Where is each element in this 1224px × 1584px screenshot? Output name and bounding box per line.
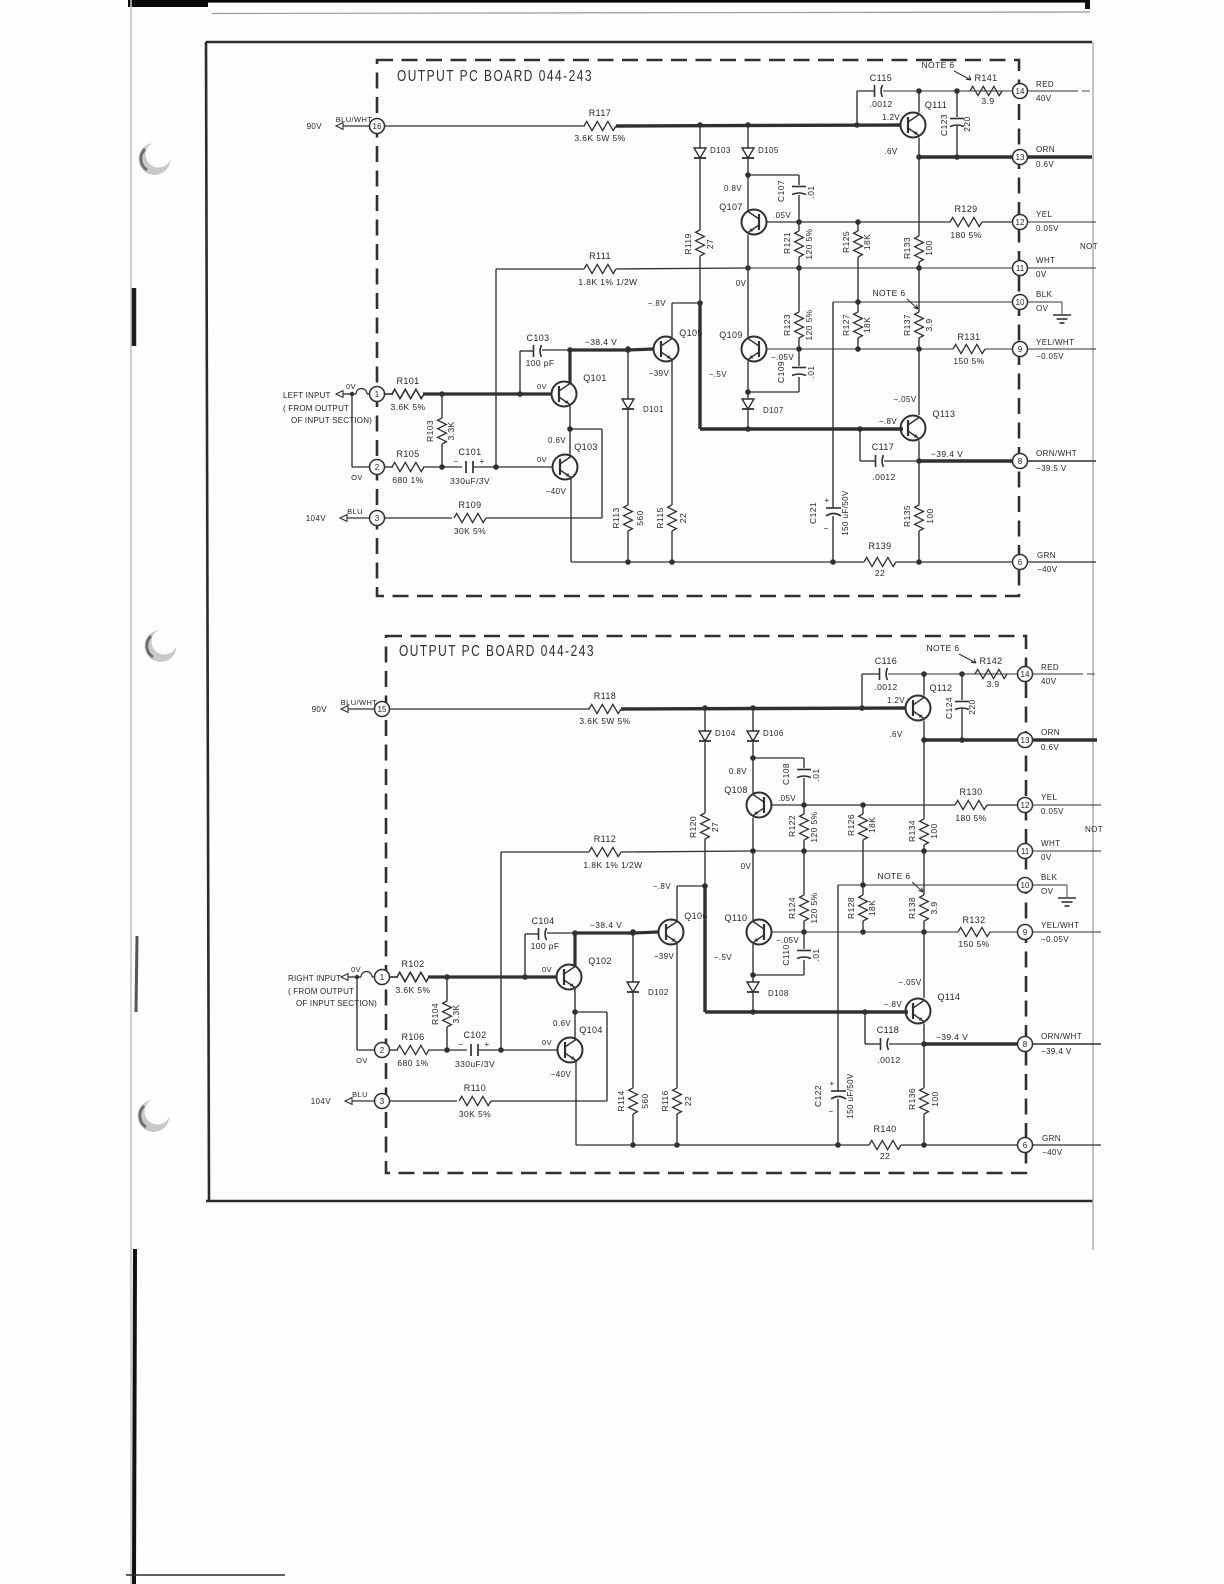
svg-text:NOTE 6: NOTE 6 [926,643,959,653]
svg-text:C122: C122 [813,1085,823,1107]
svg-text:180 5%: 180 5% [950,230,981,240]
svg-text:90V: 90V [312,705,328,714]
svg-text:+: + [824,496,829,505]
svg-text:R141: R141 [974,73,997,83]
svg-text:R104: R104 [430,1003,440,1025]
svg-text:YEL/WHT: YEL/WHT [1041,921,1079,930]
svg-text:3.9: 3.9 [929,901,939,914]
svg-text:OV: OV [1041,887,1054,896]
svg-text:WHT: WHT [1036,256,1055,265]
svg-text:C107: C107 [776,180,786,202]
svg-text:0.6V: 0.6V [1036,160,1054,169]
svg-text:YEL/WHT: YEL/WHT [1036,338,1074,347]
svg-text:ORN: ORN [1041,728,1060,737]
svg-text:−: − [453,457,458,466]
svg-text:−38.4 V: −38.4 V [585,337,617,347]
svg-text:BLK: BLK [1041,873,1058,882]
svg-text:−.5V: −.5V [709,370,728,379]
svg-text:3.9: 3.9 [924,318,934,331]
svg-text:0V: 0V [1041,853,1052,862]
svg-text:R120: R120 [688,816,698,838]
svg-text:330uF/3V: 330uF/3V [455,1059,495,1069]
svg-text:0V: 0V [741,862,752,871]
svg-text:R101: R101 [396,376,419,386]
svg-text:13: 13 [1016,153,1025,162]
svg-text:40V: 40V [1036,94,1052,103]
svg-text:C109: C109 [776,361,786,383]
svg-text:R138: R138 [907,897,917,919]
svg-text:150 5%: 150 5% [958,939,989,949]
svg-text:3.6K 5W 5%: 3.6K 5W 5% [579,716,630,726]
svg-text:−.8V: −.8V [884,1000,903,1009]
svg-text:R116: R116 [660,1090,670,1111]
svg-text:NOT: NOT [1080,242,1098,251]
svg-text:D108: D108 [768,989,789,998]
svg-text:0.6V: 0.6V [1041,743,1059,752]
svg-text:2: 2 [380,1046,385,1055]
svg-text:11: 11 [1021,847,1030,856]
svg-text:R128: R128 [846,897,856,919]
svg-text:OF INPUT SECTION): OF INPUT SECTION) [296,999,377,1008]
svg-text:22: 22 [678,513,688,523]
svg-text:0V: 0V [1036,270,1047,279]
svg-text:R115: R115 [655,507,665,528]
svg-text:( FROM OUTPUT: ( FROM OUTPUT [288,987,354,996]
svg-text:.01: .01 [811,948,821,961]
svg-text:−40V: −40V [551,1070,572,1079]
svg-text:R119: R119 [683,233,693,254]
svg-text:.0012: .0012 [869,99,892,109]
svg-text:R109: R109 [458,500,481,510]
svg-text:GRN: GRN [1037,551,1056,560]
svg-text:R105: R105 [396,449,419,459]
svg-text:ORN/WHT: ORN/WHT [1041,1032,1082,1041]
svg-text:R112: R112 [594,834,616,844]
svg-text:R117: R117 [589,108,611,118]
svg-text:9: 9 [1018,345,1023,354]
svg-text:.01: .01 [806,185,816,198]
svg-text:GRN: GRN [1042,1134,1061,1143]
svg-text:Q102: Q102 [588,956,612,966]
svg-text:3.6K 5W 5%: 3.6K 5W 5% [574,133,625,143]
svg-text:−39.5 V: −39.5 V [1036,464,1067,473]
svg-text:100: 100 [924,240,934,255]
svg-text:3.6K 5%: 3.6K 5% [391,402,426,412]
svg-text:3.3K: 3.3K [451,1004,461,1023]
svg-text:C121: C121 [808,502,818,524]
svg-text:R140: R140 [873,1124,896,1134]
svg-text:−39V: −39V [649,369,670,378]
svg-text:C102: C102 [463,1030,486,1040]
svg-text:D104: D104 [715,729,736,738]
svg-text:R114: R114 [616,1090,626,1111]
svg-text:150 uF/50V: 150 uF/50V [841,490,850,536]
svg-text:R118: R118 [594,691,616,701]
svg-text:.0012: .0012 [877,1055,900,1065]
svg-text:OF INPUT SECTION): OF INPUT SECTION) [291,416,372,425]
svg-text:680 1%: 680 1% [392,475,423,485]
svg-text:BLU: BLU [347,507,363,516]
svg-text:R103: R103 [425,420,435,442]
svg-text:−0.05V: −0.05V [1036,352,1064,361]
svg-text:R122: R122 [787,815,797,837]
svg-text:−39V: −39V [654,952,675,961]
svg-text:OV: OV [1036,304,1049,313]
svg-text:ORN: ORN [1036,145,1055,154]
svg-text:0.8V: 0.8V [724,184,742,193]
svg-text:RED: RED [1041,663,1059,672]
svg-text:−40V: −40V [1037,565,1058,574]
svg-text:−39.4 V: −39.4 V [1041,1047,1072,1056]
svg-text:40V: 40V [1041,677,1057,686]
svg-text:R131: R131 [957,332,980,342]
svg-text:BLK: BLK [1036,290,1053,299]
svg-text:Q112: Q112 [930,683,953,693]
svg-text:22: 22 [683,1096,693,1106]
svg-text:OUTPUT PC BOARD 044-243: OUTPUT PC BOARD 044-243 [399,643,595,660]
svg-text:RIGHT INPUT: RIGHT INPUT [288,974,341,983]
svg-text:0V: 0V [736,279,747,288]
svg-text:30K 5%: 30K 5% [459,1109,491,1119]
svg-text:27: 27 [710,822,720,832]
svg-text:BLU: BLU [352,1090,368,1099]
svg-text:1.8K 1% 1/2W: 1.8K 1% 1/2W [578,277,637,287]
svg-text:−.05V: −.05V [898,978,921,987]
svg-text:C117: C117 [872,442,894,452]
svg-text:R127: R127 [841,314,851,336]
svg-text:10: 10 [1016,298,1025,307]
svg-text:3.3K: 3.3K [446,421,456,440]
svg-text:12: 12 [1016,218,1025,227]
svg-text:120 5%: 120 5% [804,228,814,259]
svg-text:+: + [829,1079,834,1088]
svg-text:Q104: Q104 [579,1025,603,1035]
svg-text:16: 16 [373,122,382,131]
svg-text:0V: 0V [537,455,547,464]
svg-text:.01: .01 [811,768,821,781]
svg-text:Q113: Q113 [933,409,956,419]
svg-text:220: 220 [962,116,972,131]
svg-text:C101: C101 [458,447,481,457]
svg-text:180 5%: 180 5% [955,813,986,823]
svg-text:R106: R106 [401,1032,424,1042]
svg-text:R133: R133 [902,237,912,259]
svg-text:1.2V: 1.2V [882,113,900,122]
svg-text:−.05V: −.05V [776,936,799,945]
svg-text:0V: 0V [542,965,552,974]
svg-text:18K: 18K [867,817,877,833]
svg-text:104V: 104V [311,1097,332,1106]
svg-text:120 5%: 120 5% [809,892,819,923]
svg-text:−.8V: −.8V [653,882,672,891]
svg-text:R125: R125 [841,231,851,253]
svg-text:3.9: 3.9 [986,679,999,689]
svg-text:10: 10 [1021,881,1030,890]
svg-text:18K: 18K [862,234,872,250]
svg-text:13: 13 [1021,736,1030,745]
svg-text:90V: 90V [307,122,323,131]
svg-text:D105: D105 [758,146,779,155]
svg-text:D102: D102 [648,988,669,997]
svg-text:BLU/WHT: BLU/WHT [341,698,378,707]
svg-text:.0012: .0012 [872,472,895,482]
svg-text:−39.4 V: −39.4 V [931,449,963,459]
svg-text:22: 22 [875,568,885,578]
svg-text:560: 560 [635,510,645,525]
svg-text:−.5V: −.5V [714,953,733,962]
svg-text:C103: C103 [526,333,549,343]
svg-text:D107: D107 [763,406,784,415]
svg-text:150 uF/50V: 150 uF/50V [846,1073,855,1119]
svg-text:1: 1 [375,390,380,399]
svg-text:14: 14 [1016,87,1025,96]
svg-text:0.6V: 0.6V [548,436,566,445]
svg-text:−39.4 V: −39.4 V [936,1032,968,1042]
svg-text:18K: 18K [867,900,877,916]
svg-text:0V: 0V [346,382,356,391]
svg-text:RED: RED [1036,80,1054,89]
svg-text:R139: R139 [868,541,891,551]
svg-text:C104: C104 [531,916,554,926]
svg-text:0V: 0V [542,1038,552,1047]
svg-text:Q108: Q108 [724,785,748,795]
svg-text:R130: R130 [959,787,982,797]
svg-text:−.05V: −.05V [893,395,916,404]
svg-text:Q103: Q103 [574,442,598,452]
svg-text:.01: .01 [806,365,816,378]
svg-text:100 pF: 100 pF [531,941,560,951]
svg-text:−: − [828,1107,833,1116]
svg-text:+: + [484,1040,489,1049]
svg-text:R129: R129 [954,204,977,214]
svg-text:−: − [458,1040,463,1049]
svg-text:C115: C115 [870,73,892,83]
svg-text:WHT: WHT [1041,839,1060,848]
svg-text:Q110: Q110 [725,913,748,923]
svg-text:NOTE 6: NOTE 6 [877,871,910,881]
svg-text:11: 11 [1016,264,1025,273]
svg-text:Q101: Q101 [583,373,607,383]
svg-text:100: 100 [930,1091,940,1106]
svg-text:NOTE 6: NOTE 6 [872,288,905,298]
svg-text:.6V: .6V [884,147,897,156]
svg-text:C118: C118 [877,1025,899,1035]
svg-text:YEL: YEL [1036,210,1052,219]
svg-text:C116: C116 [875,656,897,666]
svg-text:.0012: .0012 [874,682,897,692]
svg-text:R142: R142 [979,656,1002,666]
svg-text:NOTE 6: NOTE 6 [921,60,954,70]
svg-text:6: 6 [1018,558,1023,567]
svg-text:0.8V: 0.8V [729,767,747,776]
svg-text:−40V: −40V [546,487,567,496]
svg-text:0.05V: 0.05V [1041,807,1064,816]
svg-text:15: 15 [378,705,387,714]
svg-text:C123: C123 [939,114,949,136]
svg-text:8: 8 [1018,457,1023,466]
svg-text:100 pF: 100 pF [526,358,555,368]
svg-text:R134: R134 [907,820,917,842]
svg-text:−0.05V: −0.05V [1041,935,1069,944]
svg-text:3.6K 5%: 3.6K 5% [396,985,431,995]
svg-text:6: 6 [1023,1141,1028,1150]
svg-text:R123: R123 [782,314,792,336]
svg-text:ORN/WHT: ORN/WHT [1036,449,1077,458]
svg-text:OV: OV [351,473,363,482]
svg-text:LEFT INPUT: LEFT INPUT [283,391,331,400]
svg-text:Q111: Q111 [925,100,947,110]
svg-text:NOT: NOT [1085,825,1103,834]
svg-text:C124: C124 [944,697,954,719]
svg-text:C108: C108 [781,763,791,785]
svg-text:−38.4 V: −38.4 V [590,920,622,930]
svg-text:2: 2 [375,463,380,472]
svg-text:C110: C110 [781,944,791,965]
svg-text:27: 27 [705,239,715,249]
svg-text:14: 14 [1021,670,1030,679]
svg-text:−: − [823,524,828,533]
svg-text:3.9: 3.9 [981,96,994,106]
svg-text:330uF/3V: 330uF/3V [450,476,490,486]
svg-text:3: 3 [375,514,380,523]
svg-text:104V: 104V [306,514,327,523]
svg-text:D101: D101 [643,405,664,414]
svg-text:OV: OV [356,1056,368,1065]
svg-text:3: 3 [380,1097,385,1106]
svg-text:100: 100 [929,823,939,838]
svg-text:R110: R110 [464,1083,486,1093]
svg-text:−.8V: −.8V [879,417,898,426]
svg-text:R137: R137 [902,314,912,336]
svg-text:18K: 18K [862,317,872,333]
svg-text:9: 9 [1023,928,1028,937]
svg-text:1.2V: 1.2V [887,696,905,705]
svg-text:R136: R136 [907,1088,917,1110]
svg-text:1: 1 [380,973,385,982]
svg-text:560: 560 [640,1093,650,1108]
svg-text:.05V: .05V [773,211,791,220]
svg-text:R102: R102 [401,959,424,969]
svg-text:.6V: .6V [889,730,902,739]
svg-text:D103: D103 [710,146,731,155]
svg-text:Q109: Q109 [719,330,743,340]
svg-text:8: 8 [1023,1040,1028,1049]
svg-text:0V: 0V [351,965,361,974]
svg-text:( FROM OUTPUT: ( FROM OUTPUT [283,404,349,413]
svg-text:Q107: Q107 [719,202,743,212]
svg-text:D106: D106 [763,729,784,738]
svg-text:0.05V: 0.05V [1036,224,1059,233]
svg-text:120 5%: 120 5% [804,309,814,340]
svg-text:150 5%: 150 5% [953,356,984,366]
svg-text:Q114: Q114 [938,992,961,1002]
svg-text:−.05V: −.05V [771,353,794,362]
svg-text:BLU/WHT: BLU/WHT [336,115,373,124]
svg-text:R126: R126 [846,814,856,836]
svg-text:YEL: YEL [1041,793,1057,802]
svg-text:R132: R132 [962,915,985,925]
svg-text:.05V: .05V [778,794,796,803]
svg-text:30K 5%: 30K 5% [454,526,486,536]
svg-text:OUTPUT PC BOARD 044-243: OUTPUT PC BOARD 044-243 [397,68,593,85]
svg-text:100: 100 [925,508,935,523]
svg-text:12: 12 [1021,801,1030,810]
svg-text:R111: R111 [589,251,611,261]
svg-text:22: 22 [880,1151,890,1161]
svg-text:0V: 0V [537,382,547,391]
svg-text:680 1%: 680 1% [397,1058,428,1068]
svg-text:R113: R113 [611,507,621,528]
svg-text:−.8V: −.8V [648,299,667,308]
svg-text:1.8K 1% 1/2W: 1.8K 1% 1/2W [583,860,642,870]
svg-text:R124: R124 [787,897,797,919]
svg-text:0.6V: 0.6V [553,1019,571,1028]
svg-text:R135: R135 [902,505,912,527]
svg-text:+: + [479,457,484,466]
svg-text:220: 220 [967,699,977,714]
svg-text:120 5%: 120 5% [809,811,819,842]
svg-text:−40V: −40V [1042,1148,1063,1157]
svg-text:R121: R121 [782,232,792,254]
